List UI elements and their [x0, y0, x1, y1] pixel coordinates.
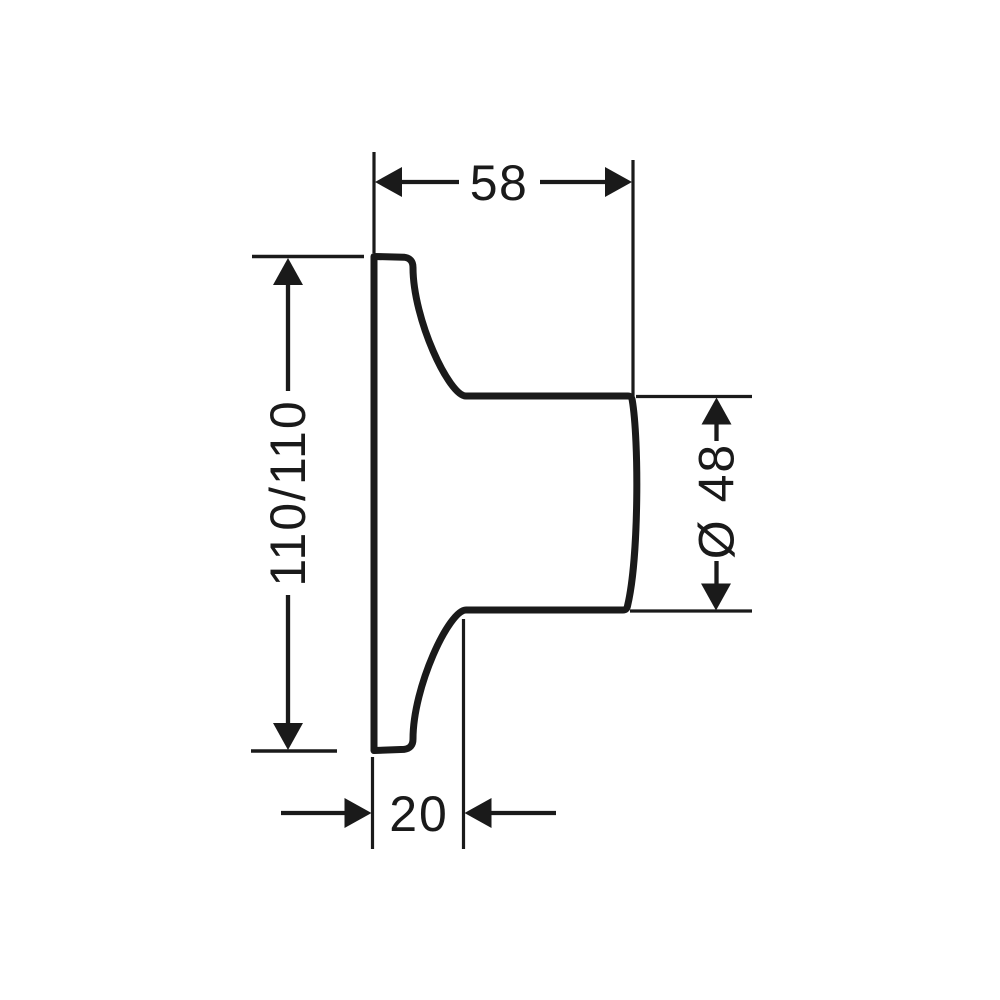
20 dimension: left extension line: [371, 757, 374, 849]
110/110 dimension: bottom tick line: [251, 749, 337, 753]
58 dimension: left extension line: [372, 152, 375, 253]
110/110 dimension: upper line segment: [286, 283, 290, 391]
20 dimension: right extension line: [462, 619, 465, 849]
diameter 48 dimension: lower line segment: [714, 561, 718, 585]
body outline: escutcheon flange with stop sleeve, side profile: [374, 257, 637, 751]
svg-text:Ø 48: Ø 48: [689, 443, 745, 559]
20 dimension: left arrow (points right): [345, 798, 372, 828]
diameter 48 dimension: top extension line: [636, 395, 752, 398]
58 dimension: left arrow: [375, 167, 402, 197]
20 dimension: right arrow (points left): [465, 798, 492, 828]
58 dimension: right extension line: [631, 160, 634, 397]
110/110 dimension: value label (rotated): [260, 399, 316, 586]
20 dimension: right tail line: [490, 811, 556, 815]
diameter 48 dimension: bottom extension line: [630, 609, 752, 612]
58 dimension: right arrow: [605, 167, 632, 197]
110/110 dimension: bottom arrow: [273, 723, 303, 750]
diameter 48 dimension: top arrow: [702, 398, 732, 425]
58 dimension: left line segment: [400, 180, 459, 184]
110/110 dimension: top arrow: [273, 258, 303, 285]
58 dimension: right line segment: [540, 180, 607, 184]
110/110 dimension: top tick line: [252, 255, 364, 259]
110/110 dimension: lower line segment: [286, 595, 290, 724]
20 dimension: left tail line: [281, 811, 348, 815]
svg-text:110/110: 110/110: [260, 399, 316, 586]
diameter 48 dimension: value label (rotated): [689, 443, 745, 559]
diameter 48 dimension: upper line segment: [714, 423, 718, 441]
svg-text:20: 20: [389, 786, 449, 842]
svg-text:58: 58: [470, 155, 529, 211]
diameter 48 dimension: bottom arrow: [701, 584, 731, 611]
